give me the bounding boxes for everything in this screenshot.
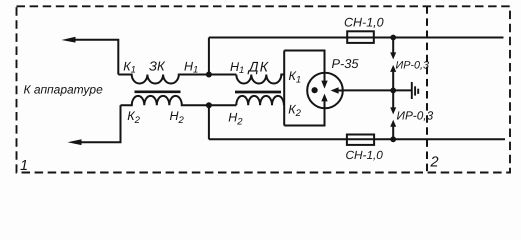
wire: top bus: [209, 37, 504, 39]
svg-text:СН-1,0: СН-1,0: [346, 148, 384, 162]
wire: bottom bus: [209, 138, 505, 140]
svg-text:ЗК: ЗК: [149, 58, 166, 73]
node: junction T1/T2 bottom: [206, 102, 212, 108]
wire: upper link to arrester top electrode: [284, 51, 324, 74]
transformer T2 core: [235, 91, 281, 94]
node: bottom bus junction: [390, 136, 396, 142]
spark gap ИР-0,3 lower: down arrow from middle junction: [390, 90, 396, 114]
arrester P-35 bottom electrode arrow: [321, 94, 327, 109]
spark gap ИР-0,3 lower: up arrow from bottom bus: [390, 120, 396, 140]
wire: arrester to ground junction: [343, 89, 412, 91]
wire: link T1–T2 top with branch to top bus: [209, 38, 236, 75]
fuse F1 СН-1,0 (top): [347, 31, 374, 43]
spark gap ИР-0,3 upper: down arrow from top bus: [390, 38, 396, 60]
wire: upper lead to apparatus with left arrow: [62, 37, 119, 75]
arrester P-35 dot electrode: [312, 87, 318, 93]
transformer T1 core: [135, 90, 181, 93]
wire: lower lead to apparatus with left arrow: [68, 105, 121, 145]
svg-text:2: 2: [430, 155, 439, 171]
arrester P-35 top electrode arrow: [321, 73, 327, 89]
svg-text:К аппаратуре: К аппаратуре: [24, 83, 104, 97]
node: junction T1/T2 top: [206, 72, 212, 78]
svg-text:1: 1: [20, 158, 28, 174]
arrester P-35 body (circle): [307, 73, 343, 109]
transformer T1 winding bottom (К2–Н2): [121, 96, 210, 105]
boundary line of unit 2 (dashed vertical): [426, 6, 428, 172]
svg-text:ДК: ДК: [247, 58, 269, 74]
transformer T2 winding ДК top (Н1–К1): [236, 75, 284, 84]
wire: link T1–T2 bottom with branch to bottom bus: [209, 105, 236, 139]
svg-text:СН-1,0: СН-1,0: [344, 15, 384, 29]
boundary frame of unit 1 (dashed): [17, 6, 511, 172]
transformer T2 winding bottom (Н2–К2): [236, 96, 284, 105]
node: middle (ground) junction: [390, 88, 396, 94]
spark gap ИР-0,3 upper: up arrow from middle junction: [390, 65, 396, 91]
fuse F2 СН-1,0 (bottom): [347, 135, 374, 145]
ground symbol (horizontal): [412, 82, 418, 99]
svg-text:Р-35: Р-35: [332, 56, 360, 71]
svg-text:ИР-0,3: ИР-0,3: [396, 59, 430, 71]
transformer T1 winding ЗК top (К1–Н1): [118, 75, 209, 84]
wire: lower link to arrester bottom electrode: [284, 109, 324, 126]
svg-text:ИР-0,3: ИР-0,3: [397, 109, 434, 123]
node: top bus junction: [390, 35, 396, 41]
arrester P-35 right electrode arrow: [331, 87, 343, 93]
wire: К1/К2 common vertical to arrester: [283, 51, 285, 126]
